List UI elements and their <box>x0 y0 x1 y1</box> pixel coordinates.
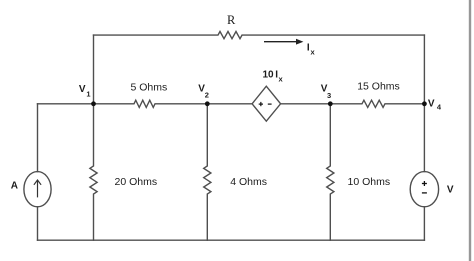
svg-text:V: V <box>79 84 86 95</box>
svg-text:V: V <box>428 99 435 110</box>
svg-text:5 Ohms: 5 Ohms <box>131 82 168 94</box>
svg-text:10 Ohms: 10 Ohms <box>348 176 391 188</box>
svg-text:R: R <box>227 13 236 27</box>
svg-text:V: V <box>447 184 454 195</box>
svg-text:15 Ohms: 15 Ohms <box>357 81 400 93</box>
svg-text:10: 10 <box>263 69 275 80</box>
svg-text:A: A <box>11 181 18 192</box>
svg-text:20 Ohms: 20 Ohms <box>115 176 158 188</box>
svg-text:4 Ohms: 4 Ohms <box>230 176 267 188</box>
svg-text:2: 2 <box>205 91 209 100</box>
svg-text:I: I <box>307 42 310 53</box>
svg-text:3: 3 <box>327 91 331 100</box>
svg-text:1: 1 <box>86 90 90 99</box>
